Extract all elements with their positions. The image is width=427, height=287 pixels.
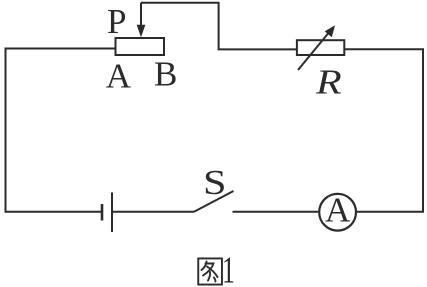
svg-text:A: A <box>106 56 132 95</box>
svg-text:A: A <box>325 190 351 229</box>
svg-text:B: B <box>154 55 177 94</box>
svg-text:1: 1 <box>222 249 235 287</box>
svg-text:R: R <box>315 63 342 102</box>
svg-text:P: P <box>107 2 126 41</box>
svg-text:S: S <box>203 163 227 202</box>
